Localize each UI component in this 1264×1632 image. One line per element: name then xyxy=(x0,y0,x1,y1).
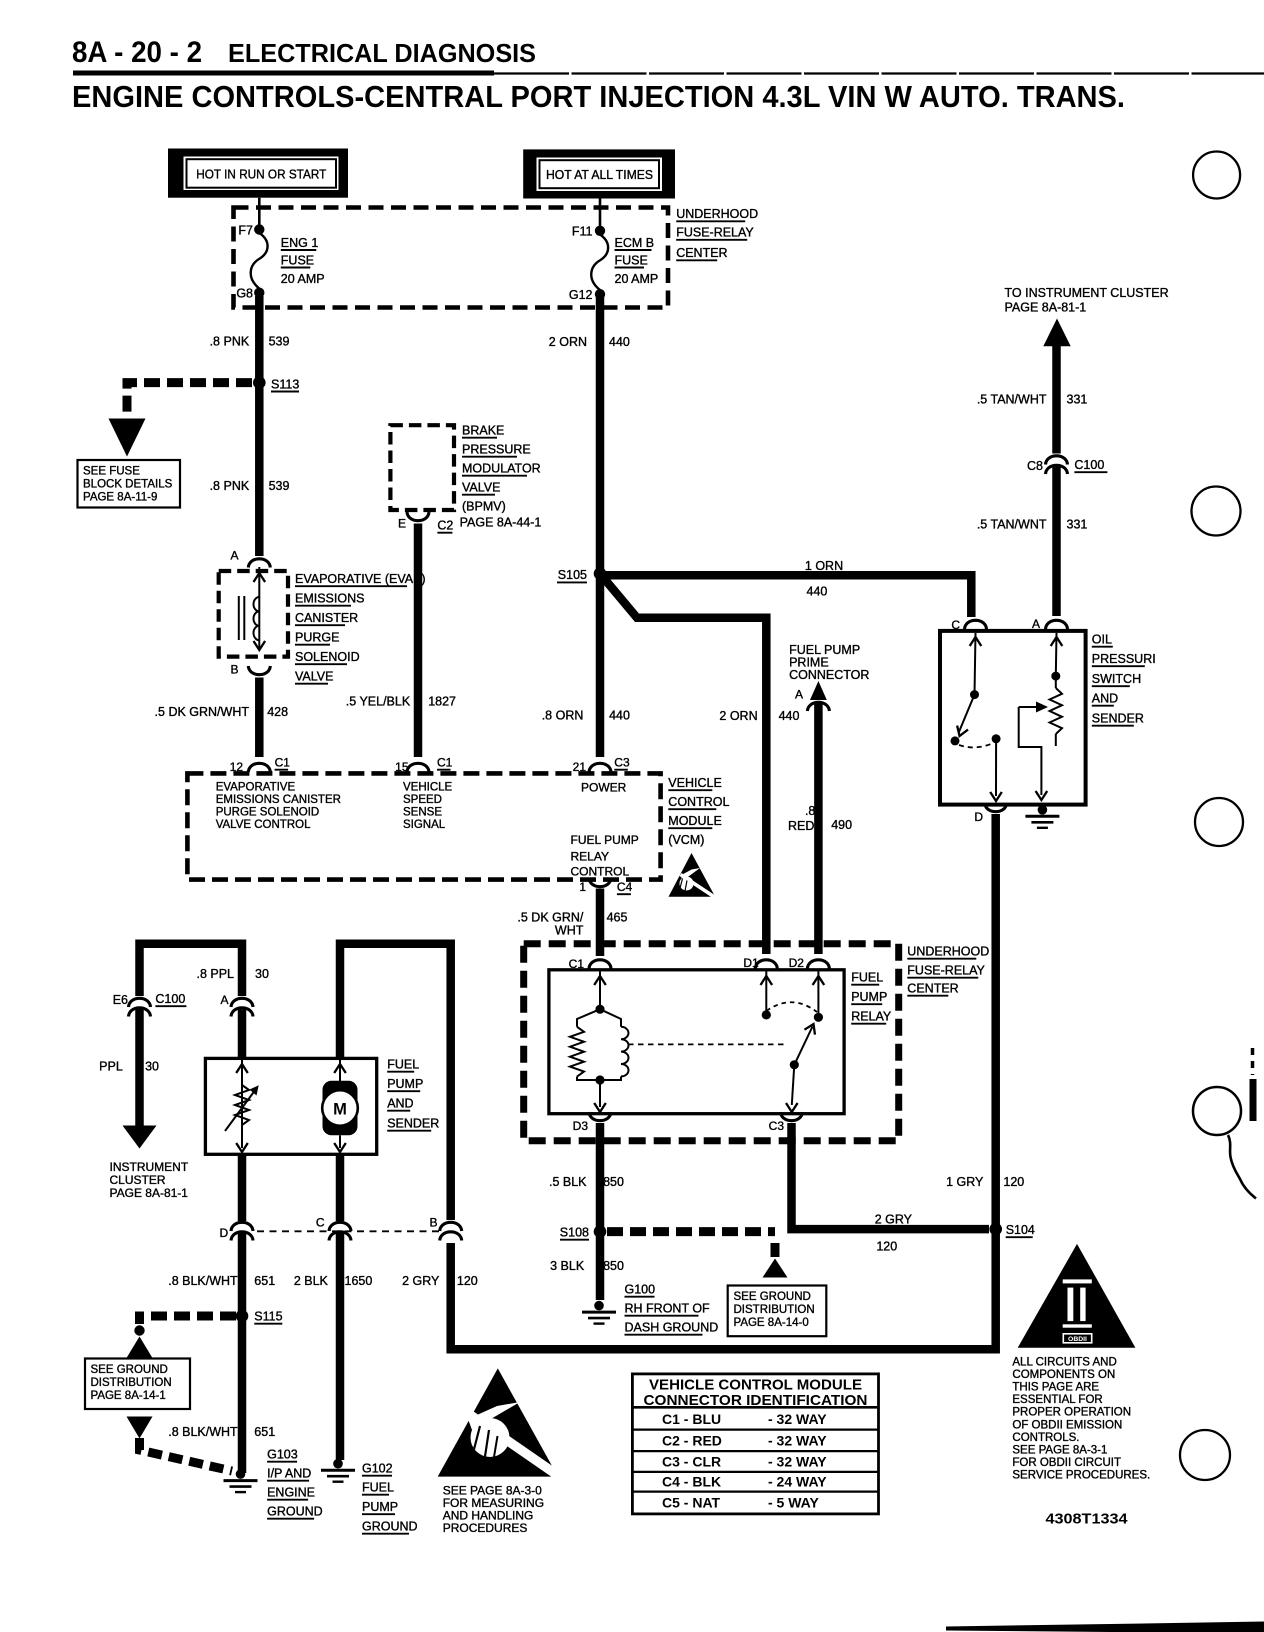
power feed label box HOT IN RUN OR START xyxy=(168,149,348,198)
svg-text:THIS PAGE ARE: THIS PAGE ARE xyxy=(1012,1382,1099,1394)
svg-text:VALVE: VALVE xyxy=(462,481,500,495)
svg-text:GROUND: GROUND xyxy=(362,1520,418,1534)
svg-text:C: C xyxy=(316,1216,325,1230)
fuse ENG 1 terminal G8 xyxy=(236,287,264,301)
svg-text:UNDERHOOD: UNDERHOOD xyxy=(907,945,989,959)
svg-text:CENTER: CENTER xyxy=(907,982,958,996)
splice S105 xyxy=(557,567,606,582)
svg-text:FUSE: FUSE xyxy=(281,253,314,267)
svg-text:1: 1 xyxy=(579,880,586,894)
wire from HOT AT ALL TIMES to fuse F11 xyxy=(599,199,602,227)
svg-text:EVAPORATIVE: EVAPORATIVE xyxy=(216,782,296,794)
svg-text:331: 331 xyxy=(1067,518,1088,532)
svg-text:SEE FUSE: SEE FUSE xyxy=(83,466,140,478)
vehicle control module (VCM) dashed box xyxy=(187,773,660,879)
svg-text:G8: G8 xyxy=(236,287,253,301)
splice S104 xyxy=(989,1223,1035,1237)
page header: section number and title xyxy=(72,36,1264,76)
label UNDERHOOD FUSE-RELAY CENTER (top) xyxy=(676,207,758,260)
svg-text:DISTRIBUTION: DISTRIBUTION xyxy=(91,1377,172,1389)
relay connector D3 xyxy=(573,1112,611,1133)
svg-text:FOR OBDII CIRCUIT: FOR OBDII CIRCUIT xyxy=(1012,1457,1121,1469)
fuse ECM B terminal F11 xyxy=(572,225,605,239)
svg-text:651: 651 xyxy=(254,1425,275,1439)
svg-text:A: A xyxy=(795,688,803,702)
svg-text:PUMP: PUMP xyxy=(387,1077,423,1091)
svg-text:440: 440 xyxy=(779,709,800,723)
svg-text:C3: C3 xyxy=(614,756,630,770)
labels VEHICLE CONTROL MODULE (VCM) xyxy=(668,776,729,847)
wire .5 DK GRN/WHT 465 from VCM C4 to relay connector C1 xyxy=(596,889,605,957)
svg-text:G12: G12 xyxy=(569,288,593,302)
svg-text:PAGE 8A-14-1: PAGE 8A-14-1 xyxy=(91,1390,166,1402)
svg-text:DASH GROUND: DASH GROUND xyxy=(625,1321,719,1335)
svg-text:1 ORN: 1 ORN xyxy=(805,559,843,573)
svg-text:20 AMP: 20 AMP xyxy=(615,272,659,286)
svg-text:- 24 WAY: - 24 WAY xyxy=(768,1474,827,1490)
svg-text:PAGE 8A-81-1: PAGE 8A-81-1 xyxy=(1005,301,1087,315)
wire 2 ORN 440 from S105 diagonal to fuel pump relay D1 xyxy=(600,574,766,954)
svg-text:1827: 1827 xyxy=(428,695,456,709)
svg-text:- 32 WAY: - 32 WAY xyxy=(768,1433,827,1449)
svg-text:539: 539 xyxy=(269,335,290,349)
svg-text:SPEED: SPEED xyxy=(403,794,442,806)
svg-text:OBDII: OBDII xyxy=(1068,1336,1087,1343)
VCM terminal 12 C1 xyxy=(230,756,291,775)
svg-text:G100: G100 xyxy=(625,1283,656,1297)
svg-text:PAGE 8A-81-1: PAGE 8A-81-1 xyxy=(110,1186,189,1200)
svg-text:RH FRONT OF: RH FRONT OF xyxy=(625,1302,711,1316)
ground G100 xyxy=(582,1283,718,1335)
svg-text:E6: E6 xyxy=(113,993,128,1007)
svg-text:SENSE: SENSE xyxy=(403,807,442,819)
svg-text:SWITCH: SWITCH xyxy=(1092,672,1141,686)
svg-text:VALVE CONTROL: VALVE CONTROL xyxy=(216,819,311,831)
wire 2 BLK 1650 from connector C to ground G102 xyxy=(336,1233,345,1460)
svg-text:C2 - RED: C2 - RED xyxy=(662,1433,722,1449)
svg-text:.8 PPL: .8 PPL xyxy=(196,967,234,981)
svg-text:I/P AND: I/P AND xyxy=(267,1467,311,1481)
label 3 BLK 850 xyxy=(550,1259,624,1273)
brake pressure modulator valve (BPMV) dashed box xyxy=(390,425,454,510)
svg-text:PAGE 8A-11-9: PAGE 8A-11-9 xyxy=(83,492,157,504)
svg-text:A: A xyxy=(230,549,238,563)
svg-text:M: M xyxy=(333,1101,347,1119)
svg-text:2 ORN: 2 ORN xyxy=(549,335,587,349)
wire .8 RED 490 from prime connector to relay D2 xyxy=(814,703,823,954)
ground G102 xyxy=(321,1459,418,1534)
svg-text:WHT: WHT xyxy=(555,924,584,938)
label .5 TAN/WNT 331 (lower) xyxy=(977,518,1088,532)
svg-text:EMISSIONS CANISTER: EMISSIONS CANISTER xyxy=(216,794,341,806)
fuel pump motor M xyxy=(322,1058,358,1152)
svg-text:PUMP: PUMP xyxy=(851,990,887,1004)
svg-text:DISTRIBUTION: DISTRIBUTION xyxy=(734,1304,815,1316)
power feed label box HOT AT ALL TIMES xyxy=(523,149,675,198)
svg-text:4308T1334: 4308T1334 xyxy=(1046,1512,1128,1528)
wire .5 DK GRN/WHT 428 from EVAP B to VCM terminal 12 xyxy=(255,678,264,758)
label .5 BLK 850 xyxy=(549,1175,624,1189)
binder hole 4 with tear mark xyxy=(1193,1048,1257,1199)
wire .5 BLK 850 from relay D3 to S108 xyxy=(596,1123,605,1300)
svg-text:440: 440 xyxy=(807,584,828,598)
oil pressure switch contacts xyxy=(951,633,1002,801)
fuel pump prime connector label and terminal A xyxy=(789,643,869,711)
svg-text:(VCM): (VCM) xyxy=(668,833,704,847)
oil pressure switch connector A xyxy=(1032,617,1068,631)
svg-text:S113: S113 xyxy=(271,377,299,391)
svg-text:C2: C2 xyxy=(437,519,453,533)
svg-text:2 GRY: 2 GRY xyxy=(402,1274,440,1288)
splice S108 xyxy=(560,1225,607,1239)
svg-text:PAGE 8A-14-0: PAGE 8A-14-0 xyxy=(734,1317,809,1329)
relay connector D1 xyxy=(743,956,777,970)
dashed off-page wire from S115 to ground distribution xyxy=(127,1316,237,1358)
svg-text:C5 - NAT: C5 - NAT xyxy=(662,1495,721,1511)
wire .8 BLK/WHT 651 from connector D to S115 xyxy=(238,1233,247,1473)
ESD static sensitive devices symbol (large) xyxy=(438,1368,563,1479)
BPMV connector E / C2 xyxy=(398,512,541,533)
relay connector C3 xyxy=(769,1112,803,1133)
label .8 PNK 539 (lower) xyxy=(210,479,290,493)
svg-text:.5 YEL/BLK: .5 YEL/BLK xyxy=(346,695,411,709)
svg-text:FUEL: FUEL xyxy=(851,971,883,985)
svg-text:440: 440 xyxy=(609,335,630,349)
svg-text:F11: F11 xyxy=(572,225,593,239)
svg-text:8A - 20 - 2: 8A - 20 - 2 xyxy=(72,36,202,69)
svg-text:SENDER: SENDER xyxy=(387,1117,439,1131)
svg-text:ECM B: ECM B xyxy=(615,236,655,250)
svg-text:D: D xyxy=(974,810,983,824)
svg-text:428: 428 xyxy=(267,705,288,719)
svg-text:ALL CIRCUITS AND: ALL CIRCUITS AND xyxy=(1012,1357,1116,1369)
splice S113 xyxy=(253,376,299,391)
fuel pump and sender box xyxy=(205,1058,376,1154)
svg-text:FUEL: FUEL xyxy=(387,1058,419,1072)
EVAP canister purge solenoid valve dashed box xyxy=(219,571,288,657)
page bottom scan bar xyxy=(946,1622,1264,1632)
svg-text:PROCEDURES: PROCEDURES xyxy=(443,1521,528,1535)
svg-text:SEE GROUND: SEE GROUND xyxy=(91,1364,168,1376)
svg-text:SEE GROUND: SEE GROUND xyxy=(734,1291,811,1303)
wire .5 TAN/WNT 331 from C100 to oil pressure switch connector A xyxy=(1052,466,1061,616)
svg-text:465: 465 xyxy=(607,911,628,925)
fuel pump connector B xyxy=(429,1216,461,1241)
svg-text:C1: C1 xyxy=(275,756,291,770)
svg-text:C4 - BLK: C4 - BLK xyxy=(662,1474,721,1490)
binder hole 2 xyxy=(1192,487,1241,536)
svg-text:.8 PNK: .8 PNK xyxy=(210,479,250,493)
svg-text:AND: AND xyxy=(387,1097,413,1111)
svg-text:VEHICLE: VEHICLE xyxy=(668,776,722,790)
fuse ENG 1 20 AMP element xyxy=(251,233,325,289)
svg-text:539: 539 xyxy=(269,479,290,493)
svg-text:D2: D2 xyxy=(789,956,805,970)
svg-text:ESSENTIAL FOR: ESSENTIAL FOR xyxy=(1012,1394,1102,1406)
svg-text:PUMP: PUMP xyxy=(362,1500,398,1514)
wire .5 YEL/BLK 1827 from BPMV C2 to VCM terminal 15 xyxy=(414,524,423,758)
svg-text:490: 490 xyxy=(831,818,852,832)
labels FUEL PUMP RELAY xyxy=(851,971,892,1024)
wire from fuel pump sender to connector D xyxy=(238,1154,247,1221)
wire from HOT IN RUN OR START to fuse F7 xyxy=(258,198,261,225)
svg-text:120: 120 xyxy=(457,1274,478,1288)
label .5 TAN/WHT 331 (upper) xyxy=(977,393,1088,407)
svg-text:SENDER: SENDER xyxy=(1092,712,1144,726)
svg-text:- 5 WAY: - 5 WAY xyxy=(768,1495,819,1511)
connector C8 / C100 inline xyxy=(1027,456,1107,474)
svg-text:PPL: PPL xyxy=(99,1060,123,1074)
svg-text:TO INSTRUMENT CLUSTER: TO INSTRUMENT CLUSTER xyxy=(1005,286,1169,300)
label .8 RED 490 xyxy=(788,804,852,833)
svg-text:A: A xyxy=(220,993,228,1007)
wire .8 PNK 539 from G8 down to EVAP solenoid connector A xyxy=(255,296,264,556)
binder hole 5 xyxy=(1180,1430,1230,1480)
svg-text:331: 331 xyxy=(1067,393,1088,407)
EVAP solenoid connector B xyxy=(230,663,270,677)
svg-text:VALVE: VALVE xyxy=(295,670,333,684)
svg-text:FUSE: FUSE xyxy=(615,253,648,267)
svg-text:CONTROL: CONTROL xyxy=(668,795,729,809)
callout box SEE GROUND DISTRIBUTION PAGE 8A-14-0 xyxy=(728,1286,827,1337)
svg-text:C100: C100 xyxy=(155,992,185,1006)
connector E6 / C100 xyxy=(113,992,187,1017)
svg-text:BRAKE: BRAKE xyxy=(462,424,504,438)
oil pressure switch connector D xyxy=(974,803,1006,824)
oil pressure sender internal ground xyxy=(1025,805,1059,828)
svg-text:MODULE: MODULE xyxy=(668,814,721,828)
svg-text:C3: C3 xyxy=(769,1119,785,1133)
OBDII notice text xyxy=(1012,1357,1150,1482)
diagram title xyxy=(72,79,1125,114)
dashed connector link D-C-B xyxy=(257,1230,440,1232)
svg-text:VEHICLE: VEHICLE xyxy=(403,782,453,794)
svg-text:CLUSTER: CLUSTER xyxy=(110,1173,166,1187)
oil pressure sender variable resistor xyxy=(1019,633,1063,800)
svg-text:.5 BLK: .5 BLK xyxy=(549,1175,587,1189)
svg-text:INSTRUMENT: INSTRUMENT xyxy=(110,1160,189,1174)
VCM internal labels xyxy=(216,781,639,879)
svg-text:.5 TAN/WHT: .5 TAN/WHT xyxy=(977,393,1047,407)
svg-text:PAGE 8A-44-1: PAGE 8A-44-1 xyxy=(460,516,542,530)
svg-text:SEE PAGE 8A-3-1: SEE PAGE 8A-3-1 xyxy=(1012,1444,1107,1456)
svg-text:- 32 WAY: - 32 WAY xyxy=(768,1453,827,1469)
relay coil with parallel resistor xyxy=(570,971,628,1112)
relay connector C1 xyxy=(569,957,611,971)
fuse ECM B terminal G12 xyxy=(569,288,605,302)
svg-text:- 32 WAY: - 32 WAY xyxy=(768,1411,827,1427)
svg-text:.8 BLK/WHT: .8 BLK/WHT xyxy=(168,1274,238,1288)
label .8 BLK/WHT 651 (lower) xyxy=(168,1425,275,1439)
svg-text:30: 30 xyxy=(255,967,269,981)
svg-text:GROUND: GROUND xyxy=(267,1505,323,1519)
svg-text:OIL: OIL xyxy=(1092,633,1112,647)
svg-text:COMPONENTS ON: COMPONENTS ON xyxy=(1012,1369,1115,1381)
EVAP canister purge solenoid valve connector A xyxy=(230,549,270,568)
relay connector D2 xyxy=(789,956,830,970)
svg-text:440: 440 xyxy=(609,708,630,722)
svg-text:HOT IN RUN OR START: HOT IN RUN OR START xyxy=(196,167,326,182)
svg-text:ENGINE CONTROLS-CENTRAL PORT I: ENGINE CONTROLS-CENTRAL PORT INJECTION 4… xyxy=(72,79,1125,114)
svg-text:D1: D1 xyxy=(743,956,759,970)
label .8 ORN 440 xyxy=(542,708,630,722)
svg-text:CENTER: CENTER xyxy=(676,246,727,260)
svg-text:PRESSURE: PRESSURE xyxy=(462,443,531,457)
fuel pump relay box xyxy=(549,970,844,1114)
svg-text:ENGINE: ENGINE xyxy=(267,1486,315,1500)
wire 1 GRY 120 from oil pressure switch D through S104 to fuel pump B xyxy=(451,814,996,1349)
VCM terminal 21 C3 xyxy=(573,756,630,775)
svg-text:S104: S104 xyxy=(1006,1223,1035,1237)
svg-text:ENG 1: ENG 1 xyxy=(281,236,319,250)
svg-text:PRESSURI: PRESSURI xyxy=(1092,652,1156,666)
svg-text:S108: S108 xyxy=(560,1226,589,1240)
svg-text:EMISSIONS: EMISSIONS xyxy=(295,592,364,606)
VCM terminal 1 C4 fuel pump relay control xyxy=(579,878,632,894)
svg-text:C8: C8 xyxy=(1027,459,1043,473)
label .5 YEL/BLK 1827 xyxy=(346,695,456,709)
svg-text:E: E xyxy=(398,517,406,531)
svg-text:SERVICE PROCEDURES.: SERVICE PROCEDURES. xyxy=(1012,1469,1150,1481)
EVAP solenoid coil element xyxy=(239,567,265,650)
svg-text:PURGE: PURGE xyxy=(295,631,339,645)
svg-text:ELECTRICAL DIAGNOSIS: ELECTRICAL DIAGNOSIS xyxy=(228,38,536,68)
wire bridge from fuel pump motor to connector B xyxy=(340,944,451,1220)
svg-text:SOLENOID: SOLENOID xyxy=(295,650,360,664)
label .5 DK GRN/WHT 428 xyxy=(155,705,289,719)
svg-text:POWER: POWER xyxy=(581,781,627,795)
svg-text:OF OBDII EMISSION: OF OBDII EMISSION xyxy=(1012,1419,1122,1431)
svg-text:CONTROL: CONTROL xyxy=(571,865,630,879)
svg-text:2 BLK: 2 BLK xyxy=(294,1274,329,1288)
svg-text:D3: D3 xyxy=(573,1119,589,1133)
label .8 PNK 539 (upper) xyxy=(210,335,290,349)
svg-text:RELAY: RELAY xyxy=(851,1010,892,1024)
splice S115 xyxy=(236,1310,283,1324)
dashed off-page wire continuing to G103 xyxy=(127,1417,233,1472)
svg-text:FUSE-RELAY: FUSE-RELAY xyxy=(676,226,754,240)
svg-text:CONTROLS.: CONTROLS. xyxy=(1012,1432,1079,1444)
svg-text:1650: 1650 xyxy=(345,1274,373,1288)
wire 2 ORN 440 from G12 down to splice S105 xyxy=(596,297,605,574)
svg-text:D: D xyxy=(220,1226,229,1240)
wire .8 ORN 440 from S105 down to VCM terminal 21 POWER xyxy=(596,576,605,757)
wire .5 TAN/WHT 331 from arrow to connector C100 xyxy=(1052,344,1061,454)
svg-text:C3 - CLR: C3 - CLR xyxy=(662,1453,721,1469)
vehicle control module connector identification table xyxy=(632,1374,878,1514)
oil pressure switch and sender box xyxy=(940,631,1086,805)
fuel pump connector C xyxy=(316,1216,351,1241)
svg-text:651: 651 xyxy=(254,1274,275,1288)
svg-text:C100: C100 xyxy=(1074,458,1104,472)
svg-text:B: B xyxy=(429,1216,437,1230)
svg-text:(BPMV): (BPMV) xyxy=(462,500,506,514)
off-page arrow TO INSTRUMENT CLUSTER PAGE 8A-81-1 xyxy=(1005,286,1169,346)
svg-text:B: B xyxy=(230,663,238,677)
svg-text:PURGE SOLENOID: PURGE SOLENOID xyxy=(216,807,320,819)
svg-text:G102: G102 xyxy=(362,1462,393,1476)
svg-text:1 GRY: 1 GRY xyxy=(946,1175,984,1189)
svg-text:C1: C1 xyxy=(437,756,453,770)
svg-text:BLOCK DETAILS: BLOCK DETAILS xyxy=(83,479,173,491)
dashed off-page wire from S113 to fuse block details xyxy=(109,383,253,457)
svg-text:AND: AND xyxy=(1092,692,1118,706)
fuel pump connector D xyxy=(220,1222,253,1240)
labels BRAKE PRESSURE MODULATOR VALVE (BPMV) PAGE 8A-44-1 xyxy=(462,424,541,514)
svg-text:MODULATOR: MODULATOR xyxy=(462,462,541,476)
svg-text:.5 TAN/WNT: .5 TAN/WNT xyxy=(977,518,1047,532)
relay contact and armature xyxy=(761,971,825,1112)
relay coil-to-contact dashed link xyxy=(628,1043,786,1045)
binder hole top xyxy=(1193,152,1240,199)
svg-text:FUEL: FUEL xyxy=(362,1481,394,1495)
svg-text:20 AMP: 20 AMP xyxy=(281,272,325,286)
label SEE PAGE 8A-3-0 FOR MEASURING AND HANDLING PROCEDURES xyxy=(443,1484,544,1536)
label 2 GRY 120 xyxy=(875,1213,913,1254)
wire 1 ORN 440 from S105 to oil pressure switch connector C xyxy=(600,575,971,617)
labels OIL PRESSURI SWITCH AND SENDER xyxy=(1092,633,1156,726)
label 2 ORN 440 (top) xyxy=(549,335,630,349)
svg-text:CONNECTOR: CONNECTOR xyxy=(789,668,869,682)
svg-text:FUSE-RELAY: FUSE-RELAY xyxy=(907,964,985,978)
svg-text:RELAY: RELAY xyxy=(571,850,609,864)
svg-text:.5 DK GRN/: .5 DK GRN/ xyxy=(517,911,584,925)
svg-text:.8 BLK/WHT: .8 BLK/WHT xyxy=(168,1425,238,1439)
svg-text:FUEL PUMP: FUEL PUMP xyxy=(571,833,639,847)
svg-text:S115: S115 xyxy=(254,1310,282,1324)
label PPL 30 xyxy=(99,1060,159,1074)
callout box SEE FUSE BLOCK DETAILS PAGE 8A-11-9 xyxy=(78,460,181,508)
label 2 ORN 440 (at relay feed) xyxy=(719,709,799,723)
binder hole 3 xyxy=(1195,798,1243,846)
underhood fuse-relay center dashed box (top) xyxy=(234,208,669,308)
label UNDERHOOD FUSE-RELAY CENTER (relay) xyxy=(907,945,989,996)
fuel pump sender connector A xyxy=(220,993,253,1017)
svg-text:2 GRY: 2 GRY xyxy=(875,1213,913,1227)
svg-text:C1 - BLU: C1 - BLU xyxy=(662,1411,721,1427)
label 1 GRY 120 xyxy=(946,1175,1024,1189)
oil pressure switch connector C xyxy=(951,618,986,632)
label .5 DK GRN/WHT 465 xyxy=(517,911,627,938)
labels FUEL PUMP AND SENDER xyxy=(387,1058,439,1131)
wire 2 GRY 120 from relay C3 to splice S104 xyxy=(792,1123,990,1229)
fuse ECM B 20 AMP element xyxy=(591,235,658,291)
label .8 PPL 30 xyxy=(196,967,268,981)
wire from connector A into fuel pump and sender xyxy=(238,1010,247,1060)
fuel level sender variable resistor xyxy=(225,1058,259,1152)
labels .8 BLK/WHT 651 / 2 BLK 1650 / 2 GRY 120 xyxy=(168,1274,478,1288)
svg-text:G103: G103 xyxy=(267,1448,298,1462)
off-page arrow to INSTRUMENT CLUSTER PAGE 8A-81-1 xyxy=(110,1126,189,1201)
svg-text:2 ORN: 2 ORN xyxy=(719,709,757,723)
labels EVAPORATIVE (EVAP) EMISSIONS CANISTER PURGE SOLENOID VALVE xyxy=(295,572,426,684)
svg-text:RED: RED xyxy=(788,819,814,833)
svg-text:.8: .8 xyxy=(805,804,815,818)
callout box SEE GROUND DISTRIBUTION PAGE 8A-14-1 xyxy=(85,1359,190,1410)
svg-text:120: 120 xyxy=(876,1240,897,1254)
ESD sensitivity symbol (small) at VCM xyxy=(669,853,718,899)
svg-text:PROPER OPERATION: PROPER OPERATION xyxy=(1012,1407,1131,1419)
label 1 ORN 440 xyxy=(805,559,843,598)
OBDII emission symbol triangle xyxy=(1018,1244,1136,1348)
svg-text:120: 120 xyxy=(1003,1175,1024,1189)
VCM terminal 15 C1 xyxy=(395,756,453,775)
svg-text:.5 DK GRN/WHT: .5 DK GRN/WHT xyxy=(155,705,250,719)
svg-text:CANISTER: CANISTER xyxy=(295,611,358,625)
underhood fuse-relay center dashed box (fuel pump relay) xyxy=(524,944,899,1141)
svg-text:3 BLK: 3 BLK xyxy=(550,1259,585,1273)
fuse ENG 1 terminal F7 xyxy=(238,224,264,238)
